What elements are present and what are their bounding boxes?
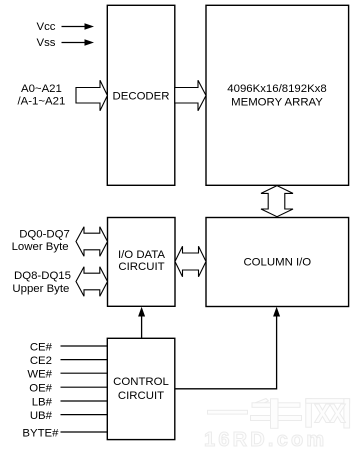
double arrow i/o data / column i/o [175, 246, 206, 277]
svg-text:DECODER: DECODER [113, 91, 170, 103]
wire LB# [61, 400, 108, 402]
block arrow address bus into decoder [76, 80, 107, 111]
svg-text:Lower Byte: Lower Byte [12, 241, 69, 253]
control circuit box [107, 338, 175, 439]
svg-text:BYTE#: BYTE# [22, 427, 59, 439]
wire WE# [61, 372, 108, 374]
svg-text:/A-1~A21: /A-1~A21 [18, 95, 66, 107]
vertical double arrow memory array / column i/o [261, 186, 293, 217]
wire CE2 [61, 359, 108, 361]
svg-text:Vss: Vss [37, 37, 56, 49]
watermark 一牛网 (drawn strokes) [208, 399, 350, 429]
double arrow DQ0-DQ7 [76, 227, 108, 257]
svg-text:A0~A21: A0~A21 [21, 83, 62, 95]
svg-text:WE#: WE# [27, 369, 52, 381]
svg-text:I/O DATA: I/O DATA [118, 249, 165, 261]
arrow Vss [62, 39, 95, 46]
svg-text:4096Kx16/8192Kx8: 4096Kx16/8192Kx8 [227, 83, 326, 95]
wire CE# [61, 345, 108, 347]
column i/o box [206, 218, 349, 307]
svg-text:OE#: OE# [29, 383, 52, 395]
svg-text:CE2: CE2 [30, 355, 52, 367]
svg-text:Upper Byte: Upper Byte [12, 283, 69, 295]
svg-text:UB#: UB# [30, 410, 53, 422]
wire control to i/o data [138, 307, 145, 338]
svg-text:CE#: CE# [30, 341, 53, 353]
memory array box [206, 5, 349, 185]
svg-text:Vcc: Vcc [37, 21, 56, 33]
arrow Vcc [62, 23, 95, 30]
wire control to column i/o [175, 307, 280, 389]
svg-text:COLUMN I/O: COLUMN I/O [243, 257, 311, 269]
double arrow DQ8-DQ15 [76, 267, 108, 297]
wire BYTE# [61, 431, 108, 433]
block arrow decoder to memory array [175, 80, 206, 111]
i/o data circuit box [108, 218, 176, 307]
watermark 16RD.com [204, 429, 327, 451]
svg-text:CIRCUIT: CIRCUIT [118, 261, 164, 273]
svg-text:16RD.com: 16RD.com [204, 429, 327, 451]
wire UB# [61, 414, 108, 416]
svg-text:MEMORY ARRAY: MEMORY ARRAY [231, 96, 323, 108]
svg-text:CONTROL: CONTROL [113, 376, 169, 388]
decoder box U1 [107, 5, 175, 185]
svg-text:DQ0-DQ7: DQ0-DQ7 [19, 229, 70, 241]
wire OE# [61, 386, 108, 388]
svg-text:LB#: LB# [32, 396, 53, 408]
svg-text:CIRCUIT: CIRCUIT [118, 390, 164, 402]
svg-text:DQ8-DQ15: DQ8-DQ15 [14, 270, 71, 282]
